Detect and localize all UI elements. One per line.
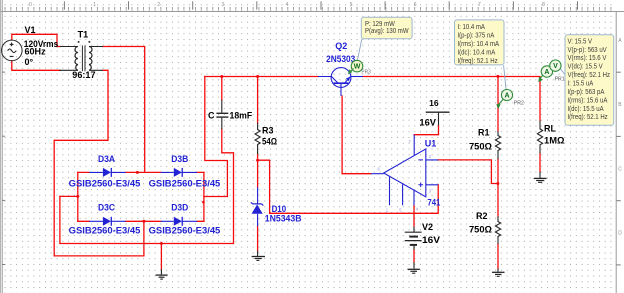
- svg-text:5: 5: [350, 2, 353, 8]
- svg-text:D3C: D3C: [98, 203, 115, 213]
- svg-text:GSIB2560-E3/45: GSIB2560-E3/45: [69, 225, 141, 235]
- svg-text:60Hz: 60Hz: [25, 47, 47, 57]
- svg-text:GSIB2560-E3/45: GSIB2560-E3/45: [149, 178, 221, 188]
- svg-text:1MΩ: 1MΩ: [544, 136, 565, 146]
- svg-text:V(rms): 15.6 V: V(rms): 15.6 V: [568, 55, 607, 63]
- svg-text:V2: V2: [422, 222, 433, 232]
- svg-text:C: C: [618, 166, 622, 172]
- svg-text:V: V: [553, 63, 558, 70]
- svg-text:D3A: D3A: [98, 154, 115, 164]
- svg-text:6: 6: [414, 2, 417, 8]
- svg-text:16V: 16V: [419, 117, 436, 127]
- svg-text:R1: R1: [478, 128, 490, 138]
- svg-text:U1: U1: [425, 139, 437, 149]
- svg-text:A: A: [504, 92, 509, 99]
- svg-text:D3B: D3B: [171, 154, 188, 164]
- svg-text:4: 4: [286, 2, 289, 8]
- svg-text:I(dc): 15.5 uA: I(dc): 15.5 uA: [568, 105, 605, 113]
- svg-text:1N5343B: 1N5343B: [265, 214, 302, 224]
- svg-text:54Ω: 54Ω: [262, 136, 277, 146]
- svg-text:16: 16: [429, 98, 439, 108]
- svg-text:A: A: [544, 69, 549, 76]
- svg-text:Q2: Q2: [335, 41, 347, 51]
- svg-text:W: W: [354, 64, 361, 71]
- svg-text:I(dc): 10.4 mA: I(dc): 10.4 mA: [457, 49, 495, 57]
- svg-text:T1: T1: [78, 30, 89, 40]
- svg-text:16V: 16V: [422, 235, 440, 245]
- svg-text:V(p-p): 563 uV: V(p-p): 563 uV: [568, 46, 608, 54]
- svg-text:P(avg): 130 mW: P(avg): 130 mW: [365, 28, 409, 36]
- svg-text:V: 15.5 V: V: 15.5 V: [568, 38, 593, 46]
- svg-text:D: D: [618, 230, 622, 236]
- svg-text:PR1: PR1: [555, 76, 565, 82]
- svg-text:D3D: D3D: [171, 203, 188, 213]
- svg-text:18mF: 18mF: [230, 111, 253, 121]
- svg-text:I(rms): 15.6 uA: I(rms): 15.6 uA: [568, 97, 608, 105]
- svg-text:V(freq): 52.1 Hz: V(freq): 52.1 Hz: [568, 72, 611, 80]
- svg-text:PR2: PR2: [514, 101, 524, 107]
- svg-text:750Ω: 750Ω: [469, 142, 492, 152]
- svg-text:0°: 0°: [25, 57, 34, 67]
- svg-text:I: 10.4 mA: I: 10.4 mA: [457, 24, 485, 32]
- svg-text:I: 15.5 uA: I: 15.5 uA: [568, 80, 594, 88]
- svg-text:GSIB2560-E3/45: GSIB2560-E3/45: [69, 178, 141, 188]
- svg-text:I(freq): 52.1 Hz: I(freq): 52.1 Hz: [457, 58, 497, 66]
- svg-text:741: 741: [427, 198, 440, 208]
- svg-text:PR3: PR3: [361, 70, 371, 76]
- svg-text:R2: R2: [476, 211, 488, 221]
- svg-text:3: 3: [221, 2, 224, 8]
- svg-text:7: 7: [478, 2, 481, 8]
- svg-text:V1: V1: [25, 25, 36, 35]
- svg-text:GSIB2560-E3/45: GSIB2560-E3/45: [149, 225, 221, 235]
- svg-text:R3: R3: [262, 126, 274, 136]
- svg-text:2N5303: 2N5303: [326, 54, 355, 64]
- svg-text:I(rms): 10.4 mA: I(rms): 10.4 mA: [457, 41, 499, 49]
- svg-text:V(dc): 15.5 V: V(dc): 15.5 V: [568, 63, 604, 71]
- svg-text:96:17: 96:17: [72, 70, 95, 80]
- svg-text:750Ω: 750Ω: [469, 225, 492, 235]
- svg-text:I(p-p): 375 nA: I(p-p): 375 nA: [457, 32, 494, 40]
- svg-text:2: 2: [157, 2, 160, 8]
- svg-text:D10: D10: [272, 204, 287, 214]
- svg-text:RL: RL: [544, 124, 556, 134]
- svg-text:1: 1: [93, 2, 96, 8]
- svg-text:I(freq): 52.1 Hz: I(freq): 52.1 Hz: [568, 114, 608, 122]
- svg-text:C: C: [208, 111, 215, 121]
- svg-text:I(p-p): 563 pA: I(p-p): 563 pA: [568, 88, 605, 96]
- svg-text:0: 0: [29, 2, 32, 8]
- svg-text:8: 8: [542, 2, 545, 8]
